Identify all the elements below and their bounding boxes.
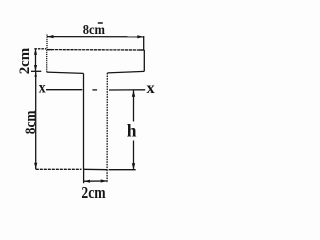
svg-text:x: x (39, 80, 46, 97)
svg-text:2cm: 2cm (17, 47, 33, 74)
svg-text:2cm: 2cm (81, 183, 105, 202)
svg-text:h: h (127, 121, 137, 141)
svg-text:8cm: 8cm (23, 110, 39, 134)
svg-text:8cm: 8cm (83, 23, 106, 38)
svg-text:x: x (147, 80, 155, 97)
